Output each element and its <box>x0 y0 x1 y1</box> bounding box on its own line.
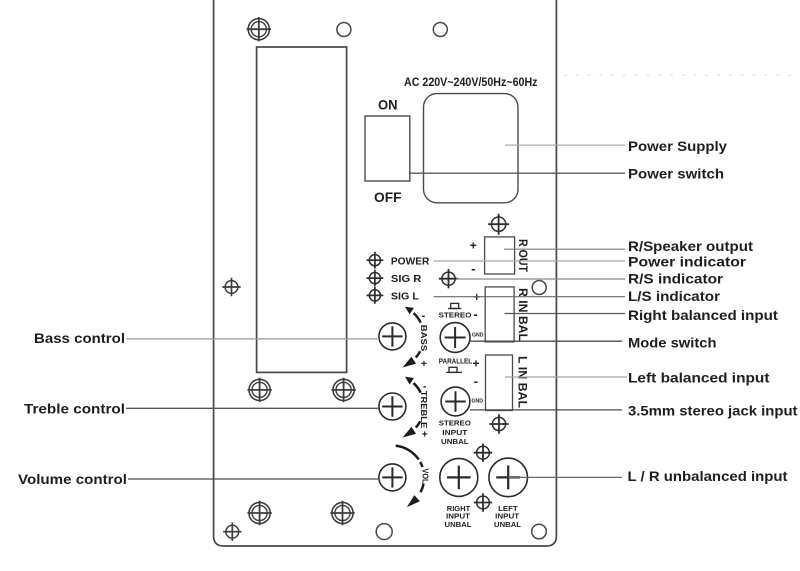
svg-text:STEREO: STEREO <box>439 419 471 428</box>
svg-text:UNBAL: UNBAL <box>494 520 522 529</box>
svg-text:-: - <box>473 307 477 322</box>
screw S9 beside SIG R <box>439 269 458 288</box>
label STEREO INPUT UNBAL <box>439 419 471 446</box>
hole circle right mid <box>532 281 546 295</box>
svg-text:-: - <box>422 310 426 322</box>
pointer line R/S indicator <box>456 278 625 280</box>
svg-text:L/S indicator: L/S indicator <box>628 288 721 304</box>
volume knob <box>379 464 406 491</box>
volume arc arrow bottom <box>407 495 420 507</box>
svg-text:+: + <box>472 357 479 371</box>
pointer line L/S indicator <box>434 296 626 298</box>
svg-text:Right balanced input: Right balanced input <box>628 307 778 323</box>
svg-text:Power switch: Power switch <box>628 166 724 182</box>
bass arc arrow bottom <box>403 357 417 368</box>
svg-text:BASS: BASS <box>419 325 429 352</box>
svg-text:L IN BAL: L IN BAL <box>515 356 527 408</box>
svg-text:-: - <box>471 261 475 276</box>
screw S2 left-mid <box>222 278 240 296</box>
svg-text:Treble control: Treble control <box>24 401 125 417</box>
svg-text:AC 220V~240V/50Hz~60Hz: AC 220V~240V/50Hz~60Hz <box>404 75 538 89</box>
hole circle bottom mid <box>376 524 392 540</box>
stereo slide icon <box>448 303 461 308</box>
SIG R indicator LED <box>367 270 384 287</box>
screw S1 top-left <box>247 17 271 41</box>
svg-text:Left balanced input: Left balanced input <box>628 370 770 386</box>
svg-text:ON: ON <box>378 97 398 113</box>
svg-text:GND: GND <box>472 398 484 404</box>
svg-text:R OUT: R OUT <box>516 239 528 272</box>
hole circle top B <box>433 23 447 37</box>
pointer line right balanced <box>505 313 626 315</box>
screw S4 under heatsink right <box>331 378 355 402</box>
bass arc arrow top <box>405 307 414 315</box>
pointer line bass <box>127 338 380 340</box>
pointer line power supply <box>505 144 625 146</box>
svg-text:R/Speaker output: R/Speaker output <box>628 238 753 254</box>
L IN BAL terminal block <box>486 355 513 411</box>
svg-text:UNBAL: UNBAL <box>445 520 473 529</box>
svg-text:-: - <box>474 373 478 388</box>
mode switch knob <box>440 323 470 353</box>
svg-text:Mode switch: Mode switch <box>628 334 717 350</box>
screw S12 below jacks <box>474 493 492 511</box>
hole circle bottom right <box>532 524 547 539</box>
pointer line 3.5mm jack <box>470 409 622 411</box>
screw S6 bottom right <box>330 501 354 525</box>
svg-text:POWER: POWER <box>391 256 430 268</box>
screw S8 above R OUT <box>488 214 509 235</box>
pointer line power indicator <box>434 260 626 262</box>
bass knob <box>379 323 406 350</box>
svg-text:+: + <box>422 429 428 441</box>
treble arc arrow bottom <box>403 427 417 438</box>
3.5mm stereo jack <box>441 387 470 416</box>
treble arc <box>414 383 421 428</box>
svg-text:R/S indicator: R/S indicator <box>628 271 724 287</box>
svg-text:SIG R: SIG R <box>391 273 422 285</box>
svg-text:Power indicator: Power indicator <box>628 253 747 269</box>
svg-text:PARALLEL: PARALLEL <box>439 357 473 366</box>
svg-text:UNBAL: UNBAL <box>441 437 469 446</box>
AC inlet socket <box>424 94 519 203</box>
svg-text:Power Supply: Power Supply <box>628 138 727 154</box>
faint dotted guide line <box>564 74 800 76</box>
svg-text:+: + <box>470 239 477 253</box>
svg-text:OFF: OFF <box>374 189 402 205</box>
treble arc arrow top <box>405 377 414 385</box>
right input jack <box>440 458 478 496</box>
svg-text:INPUT: INPUT <box>442 428 467 437</box>
left input jack <box>489 458 528 497</box>
screw S11 above jacks <box>474 444 492 462</box>
heatsink cutout <box>257 47 347 372</box>
treble knob <box>379 393 406 420</box>
SIG L indicator LED <box>367 287 384 304</box>
R OUT terminal block <box>485 237 515 274</box>
label RIGHT INPUT UNBAL <box>445 504 473 529</box>
svg-text:STEREO: STEREO <box>439 311 472 320</box>
screw S5 bottom left <box>247 501 271 525</box>
pointer line R speaker output <box>504 248 625 250</box>
volume arc <box>396 446 424 493</box>
screw S3 under heatsink left <box>247 378 271 402</box>
screw S10 right of unbal label <box>489 414 508 433</box>
pointer line power switch <box>410 172 625 174</box>
svg-text:3.5mm stereo jack input: 3.5mm stereo jack input <box>628 402 798 418</box>
svg-text:L / R unbalanced input: L / R unbalanced input <box>628 468 788 484</box>
hole circle top A <box>337 23 351 37</box>
parallel slide icon <box>446 367 462 372</box>
svg-text:GND: GND <box>472 332 484 338</box>
pointer line volume <box>128 478 379 480</box>
svg-text:VOL: VOL <box>420 469 430 484</box>
R IN BAL terminal block <box>485 287 514 342</box>
svg-text:Volume control: Volume control <box>18 471 127 487</box>
panel outline <box>214 0 557 546</box>
svg-text:SIG L: SIG L <box>391 291 420 303</box>
label LEFT INPUT UNBAL <box>494 504 522 529</box>
svg-text:Bass control: Bass control <box>34 330 125 346</box>
pointer line left balanced <box>505 376 627 378</box>
svg-text:TREBLE: TREBLE <box>419 391 429 429</box>
svg-text:R IN BAL: R IN BAL <box>516 288 528 341</box>
power switch rectangle <box>365 116 410 181</box>
screw S7 bottom corner <box>223 523 241 541</box>
pointer line mode switch <box>470 340 623 342</box>
pointer line treble <box>126 407 379 409</box>
POWER indicator LED <box>367 252 384 269</box>
pointer line L/R unbalanced <box>508 476 622 478</box>
svg-text:+: + <box>421 358 427 370</box>
bass arc <box>414 313 421 358</box>
